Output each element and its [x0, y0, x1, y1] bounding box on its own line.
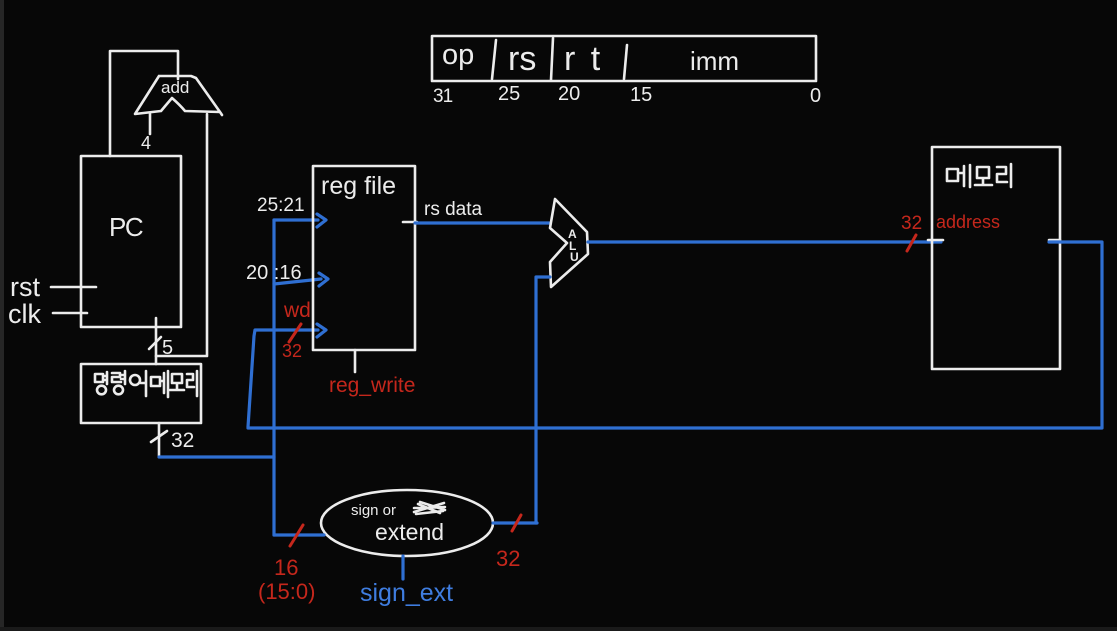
wire: write-data (wd) from result bus into reg file — [248, 324, 326, 427]
svg-text:25: 25 — [498, 83, 520, 105]
bit index labels 31 25 20 15 0 — [433, 83, 821, 107]
node clk input — [8, 299, 87, 329]
node 20:16 field tap into reg file read port 2 — [246, 262, 328, 286]
constant 4 input stub to adder — [141, 114, 151, 153]
wire: PC to instruction memory with width-5 slash — [149, 318, 173, 364]
instruction format field box op rs rt imm — [432, 36, 816, 81]
svg-text:sign_ext: sign_ext — [360, 579, 453, 607]
svg-text:extend: extend — [375, 519, 444, 545]
wire: adder output down right side of PC, joining PC->IM wire — [156, 114, 207, 356]
svg-text:32: 32 — [282, 341, 302, 361]
svg-text:r t: r t — [564, 40, 603, 78]
register file — [313, 166, 415, 350]
wire: sign extend 32-bit output with slash — [493, 515, 537, 571]
svg-text:32: 32 — [901, 213, 922, 234]
wire: main instruction vertical bus — [272, 220, 275, 535]
op-amp style ALU unit — [550, 199, 588, 287]
svg-text:25:21: 25:21 — [257, 195, 305, 216]
svg-text:32: 32 — [171, 429, 194, 452]
wire: memory output down and back along bottom to wd — [248, 242, 1102, 428]
hangul strokes for memori — [947, 164, 1011, 187]
wire: sign-extend output up into ALU second input — [536, 277, 550, 523]
svg-text:imm: imm — [690, 46, 739, 76]
svg-text:20: 20 — [558, 83, 580, 105]
label address input with width-32 slash (red) — [901, 212, 1000, 251]
wire: ALU result to memory address input — [588, 240, 941, 243]
svg-text:0: 0 — [810, 85, 821, 107]
control reg_write input stub — [329, 350, 415, 397]
svg-text:5: 5 — [162, 337, 173, 359]
hangul strokes for myeong-ryeong-eo memori — [95, 371, 197, 397]
node rs data output of reg file — [403, 199, 549, 223]
svg-text:U: U — [570, 250, 579, 264]
svg-text:16: 16 — [274, 555, 298, 580]
sign or zero extend unit — [321, 490, 493, 556]
svg-text:32: 32 — [496, 546, 520, 571]
instruction memory (Korean: myeongryeongeo memori) — [81, 364, 201, 423]
wire: instruction bus from IM output to main vertical bus (blue) — [159, 455, 274, 458]
adder ADD (add 4 unit) — [135, 76, 222, 115]
pin tick: memory data-out pin — [1049, 239, 1060, 242]
wire: 15:0 immediate into sign extend with width-16 slash — [258, 525, 324, 604]
wire: PC output loop up to adder input — [110, 51, 178, 156]
svg-text:rst: rst — [10, 272, 40, 302]
label wd with width-32 slash (red) — [282, 299, 311, 361]
svg-text:address: address — [936, 212, 1000, 232]
register PC — [81, 156, 181, 327]
svg-text:clk: clk — [8, 299, 41, 329]
svg-text:rs data: rs data — [424, 199, 483, 220]
svg-text:rs: rs — [508, 40, 536, 78]
svg-text:(15:0): (15:0) — [258, 579, 315, 604]
svg-text:4: 4 — [141, 133, 151, 153]
svg-text:reg file: reg file — [321, 172, 396, 200]
pin tick: memory address pin — [928, 239, 943, 242]
wire: instruction memory output with width-32 slash — [151, 423, 194, 457]
svg-text:sign or: sign or — [351, 502, 396, 519]
data memory (Korean: memori) — [932, 147, 1060, 369]
node rst input — [10, 272, 96, 302]
svg-text:wd: wd — [283, 299, 311, 322]
svg-text:reg_write: reg_write — [329, 374, 415, 397]
control sign_ext input stub — [360, 556, 453, 607]
svg-text:PC: PC — [109, 212, 143, 242]
node 25:21 field tap into reg file read port 1 — [257, 195, 326, 227]
svg-text:31: 31 — [433, 86, 453, 107]
svg-text:15: 15 — [630, 84, 652, 106]
svg-text:op: op — [442, 39, 474, 71]
svg-text:add: add — [161, 78, 189, 97]
